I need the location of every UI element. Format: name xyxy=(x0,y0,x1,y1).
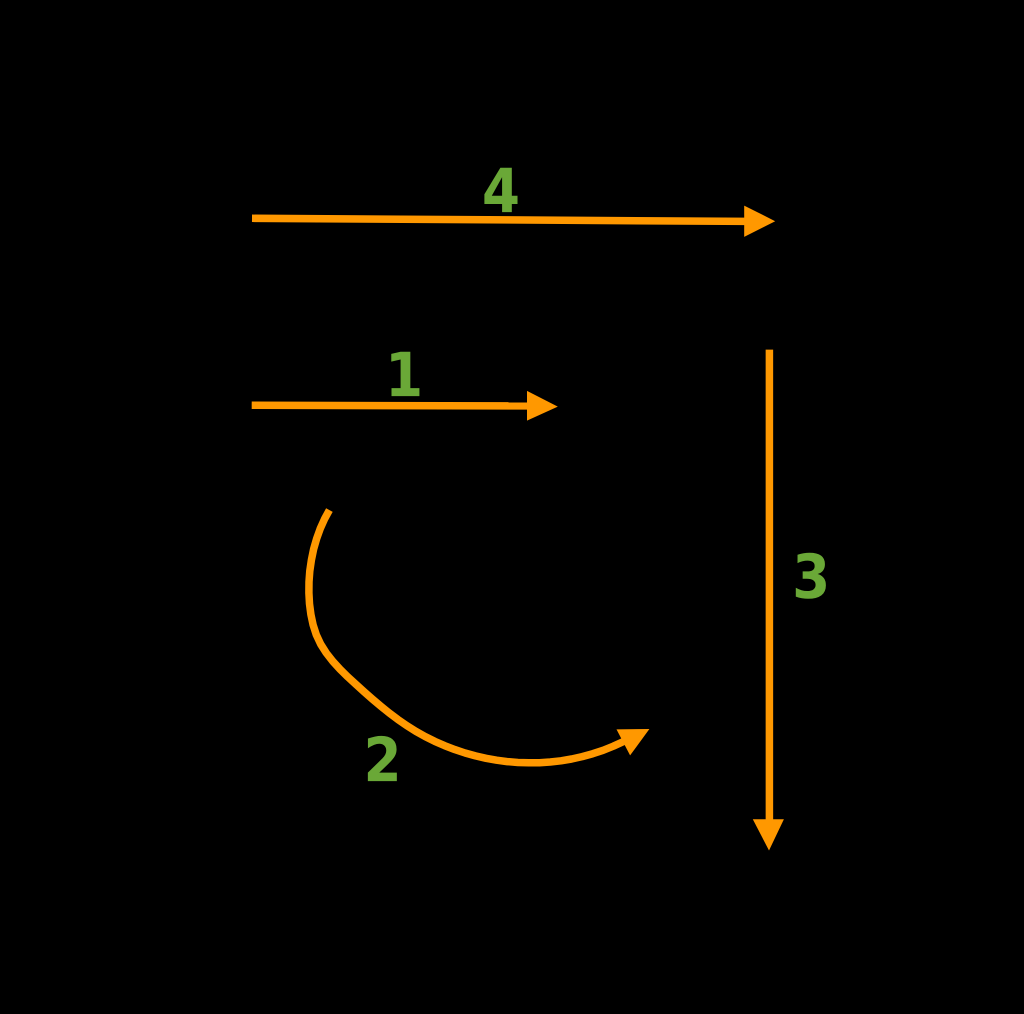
stroke 1 arrowhead xyxy=(527,391,558,421)
stroke 4 arrowhead xyxy=(744,206,775,237)
stroke 3 arrowhead xyxy=(753,819,784,850)
stroke 3 arrow shaft xyxy=(766,350,774,821)
label 2 xyxy=(368,736,397,781)
label 4 xyxy=(484,168,517,212)
label 1 xyxy=(391,352,419,396)
label 3 xyxy=(796,553,826,599)
stroke 1 arrow shaft xyxy=(252,402,529,410)
stroke 4 arrow shaft xyxy=(252,218,746,221)
stroke 2 curved shaft xyxy=(309,510,623,763)
stroke 2 arrowhead xyxy=(617,729,650,755)
